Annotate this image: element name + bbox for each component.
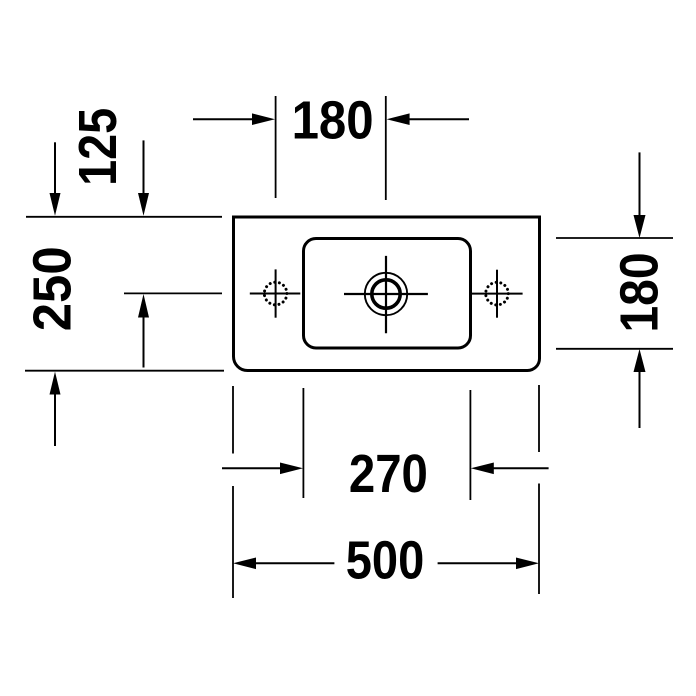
270 right arrow xyxy=(471,463,549,475)
svg-text:270: 270 xyxy=(349,444,428,504)
top 180 extension line left xyxy=(275,96,277,198)
250 bottom arrow xyxy=(50,372,61,446)
250 top arrow xyxy=(50,142,61,216)
left optional hole dotted circle xyxy=(264,282,287,305)
right hole crosshair horizontal xyxy=(471,293,523,295)
basin inner bowl xyxy=(304,239,471,349)
left reference line bottom xyxy=(25,370,224,372)
faucet hole crosshair vertical xyxy=(385,256,387,333)
svg-text:180: 180 xyxy=(292,91,374,151)
svg-text:180: 180 xyxy=(610,253,670,333)
270 left arrow xyxy=(222,463,303,475)
left hole crosshair vertical xyxy=(275,269,277,317)
right 180 bottom tick line xyxy=(556,348,673,350)
bottom extension line inner left xyxy=(302,388,304,498)
right 180 top tick line xyxy=(556,237,673,239)
bottom extension line inner right xyxy=(469,390,471,500)
bottom extension line far left lower xyxy=(232,486,234,598)
faucet hole outer ring xyxy=(365,273,407,315)
bottom extension line far left upper xyxy=(232,386,234,454)
svg-text:250: 250 xyxy=(23,246,83,331)
bottom extension line far right upper xyxy=(538,385,540,452)
svg-text:500: 500 xyxy=(346,531,425,591)
top 180 right arrow xyxy=(387,113,469,125)
500 dimension line right segment with arrow xyxy=(438,558,539,570)
right 180 bottom arrow xyxy=(634,349,646,428)
125 bottom arrow xyxy=(138,294,149,368)
right hole crosshair vertical xyxy=(496,270,498,318)
top 180 left arrow xyxy=(193,113,275,125)
right 180 top arrow xyxy=(634,152,646,238)
faucet hole crosshair horizontal xyxy=(344,293,428,295)
500 dimension line left segment with arrow xyxy=(233,558,334,570)
right optional hole dotted circle xyxy=(486,282,509,305)
bottom extension line far right lower xyxy=(538,484,540,595)
faucet hole inner ring xyxy=(372,280,400,308)
left reference line middle xyxy=(124,292,222,294)
125 top arrow xyxy=(138,140,149,215)
top 180 extension line right xyxy=(385,96,387,200)
svg-text:125: 125 xyxy=(68,108,128,186)
left reference line top xyxy=(26,216,222,218)
left hole crosshair horizontal xyxy=(250,293,300,295)
basin outer body xyxy=(234,217,540,371)
